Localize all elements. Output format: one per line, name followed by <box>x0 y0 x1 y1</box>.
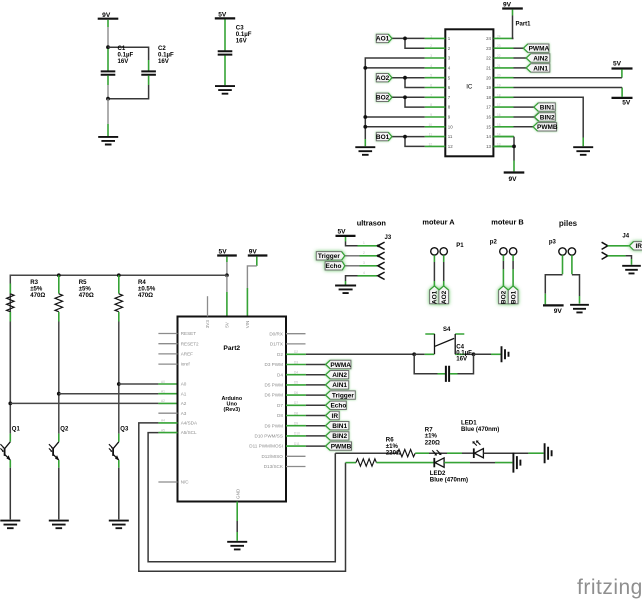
svg-text:11: 11 <box>448 134 453 139</box>
svg-text:S4: S4 <box>443 327 451 333</box>
net flag AIN2 (Arduino D4) <box>326 371 349 380</box>
svg-text:±1%: ±1% <box>425 433 438 440</box>
svg-text:BO1: BO1 <box>510 290 517 304</box>
svg-text:19: 19 <box>497 84 501 88</box>
svg-text:3V3: 3V3 <box>205 320 210 329</box>
svg-text:D6 PWM: D6 PWM <box>265 393 284 398</box>
svg-text:15: 15 <box>497 123 501 127</box>
ground (Q3) <box>109 521 129 529</box>
net flag BO2 <box>376 93 392 102</box>
svg-text:AREF: AREF <box>181 352 193 357</box>
wire p3 pin1 to 9V <box>545 255 562 304</box>
resistor R3 <box>7 279 46 322</box>
svg-text:p3: p3 <box>549 240 557 246</box>
svg-text:BO1: BO1 <box>376 134 390 141</box>
p3 pin circle 2 <box>568 248 575 255</box>
svg-text:Trigger: Trigger <box>318 253 341 260</box>
svg-text:IR: IR <box>635 243 642 250</box>
svg-text:9V: 9V <box>249 248 258 255</box>
svg-text:D0/RX: D0/RX <box>269 331 283 336</box>
power 9V Part1 (IC pin 24) <box>502 2 523 16</box>
node AO2 <box>403 76 407 80</box>
wire resistor top rail <box>10 275 227 403</box>
svg-text:A5/SCL: A5/SCL <box>181 430 197 435</box>
node junction C1 top <box>106 45 110 49</box>
op-amp-driver IC box <box>445 29 493 156</box>
svg-text:19: 19 <box>486 85 491 90</box>
wire D11 to PWMB <box>306 445 326 447</box>
wire C4 bypass left <box>414 354 437 374</box>
wire D10 to BIN2 <box>306 435 326 437</box>
node pin13-14 <box>512 145 516 149</box>
svg-text:BIN1: BIN1 <box>540 105 555 112</box>
wire upper LED rail left <box>335 452 397 454</box>
svg-text:AIN1: AIN1 <box>332 382 347 389</box>
svg-text:10: 10 <box>448 124 453 129</box>
svg-text:J3: J3 <box>385 235 392 241</box>
svg-text:J4: J4 <box>622 234 629 240</box>
wire D4 to AIN2 <box>306 374 326 376</box>
net flag IR (J4) <box>629 242 642 251</box>
svg-text:4: 4 <box>430 64 432 68</box>
svg-text:BIN1: BIN1 <box>332 423 347 430</box>
wire BO1 to pins 11,12 <box>392 137 425 147</box>
Arduino right pin leads D2-D11 <box>286 354 306 446</box>
wire node to S4 left terminal <box>414 353 425 355</box>
svg-text:Trigger: Trigger <box>332 392 355 399</box>
svg-text:470Ω: 470Ω <box>138 292 153 299</box>
net flag PWMA (Arduino D3) <box>326 360 352 369</box>
svg-text:470Ω: 470Ω <box>30 292 45 299</box>
resistor R7 (lower rail) <box>356 459 376 466</box>
ground (C3) <box>215 86 235 94</box>
svg-text:2: 2 <box>430 44 432 48</box>
wire D7 to Echo <box>306 404 326 406</box>
svg-text:D4: D4 <box>294 371 298 375</box>
power 9V (above Arduino) <box>248 248 268 266</box>
svg-text:AO2: AO2 <box>441 290 448 304</box>
svg-text:22: 22 <box>486 56 491 61</box>
J3 pin 3 <box>360 262 385 269</box>
net flag Trigger (J3) <box>316 252 345 261</box>
tiny pin numbers (Arduino leads) <box>161 350 300 446</box>
svg-text:A2: A2 <box>181 401 187 406</box>
node AO1 <box>403 37 407 41</box>
svg-text:ultrason: ultrason <box>357 218 387 227</box>
ground (Arduino GND) <box>227 542 247 550</box>
svg-text:6: 6 <box>430 84 432 88</box>
wire junction to ground <box>107 99 109 136</box>
svg-text:AO1: AO1 <box>432 290 439 304</box>
p3 pin circle 1 <box>559 248 566 255</box>
wire 9V to C1 junction <box>107 27 109 46</box>
ground (lower rail) <box>513 453 520 473</box>
svg-text:4: 4 <box>363 271 365 275</box>
svg-text:18: 18 <box>497 93 501 97</box>
svg-text:D13/SCK: D13/SCK <box>264 464 284 469</box>
wire pin18 to ground <box>514 97 584 146</box>
wire pin20 to 5V <box>514 77 622 79</box>
wire AO2 to pins 5,6 <box>392 78 425 88</box>
wire J4 pin2 to ground <box>626 256 632 265</box>
svg-text:D8: D8 <box>277 413 283 418</box>
capacitor C1 <box>101 45 134 85</box>
wire 9V to Arduino VIN pin <box>247 266 256 316</box>
svg-text:24: 24 <box>497 34 501 38</box>
Arduino A4 A5 pin leads <box>158 423 177 433</box>
svg-text:3: 3 <box>363 261 365 265</box>
wire A5/SCL loop to upper LED rail <box>148 433 335 562</box>
net flag AO2 (moteur A) <box>439 286 449 304</box>
power 5V (IC pin 20) <box>612 61 633 78</box>
svg-text:(Rev3): (Rev3) <box>224 407 241 413</box>
net flag BIN2 (IC pin 16) <box>534 113 555 122</box>
wire D2 to switch S4 <box>306 353 414 355</box>
net flag BO2 (moteur B) <box>499 286 509 304</box>
svg-text:220Ω: 220Ω <box>425 440 440 447</box>
wire ground bus pins 3,4,9,10 <box>365 58 424 146</box>
wire AO1 to pins 1,2 <box>392 38 425 48</box>
net flag PWMB (IC pin 15) <box>533 123 558 132</box>
svg-text:7: 7 <box>430 93 432 97</box>
svg-text:2: 2 <box>363 251 365 255</box>
node S4 right <box>472 352 476 356</box>
IC right pin leads 24-13 <box>493 38 513 146</box>
capacitor C4 <box>438 344 473 382</box>
wire D5 to AIN1 <box>306 384 326 386</box>
wire P1 pin1 to AO1 flag <box>433 255 435 286</box>
svg-text:D8: D8 <box>294 411 298 415</box>
net flag PWMB (Arduino D11) <box>326 442 352 451</box>
net flag BIN1 (IC pin 17) <box>534 103 555 112</box>
wire A1 from R5 <box>59 393 178 395</box>
resistor R6 (upper rail) <box>386 437 415 457</box>
svg-text:21: 21 <box>486 66 491 71</box>
power 9V (top left) <box>98 12 119 27</box>
svg-text:PWMA: PWMA <box>330 362 351 369</box>
svg-text:A0: A0 <box>181 382 187 387</box>
LED1 <box>472 440 483 458</box>
Arduino left stubs RESET RESET2 AREF ioref A3 N/C <box>158 334 177 483</box>
net flag AIN2 (IC pin 22) <box>526 54 550 63</box>
wire p2 pin2 to BO1 flag <box>512 255 514 286</box>
svg-text:5V: 5V <box>622 100 631 107</box>
svg-text:D10: D10 <box>294 432 300 436</box>
net flag Trigger (Arduino D6) <box>326 391 356 400</box>
capacitor C2 <box>141 45 174 85</box>
power 9V (piles) <box>543 305 564 315</box>
node A2 tap <box>8 402 12 406</box>
IC tiny outer pin numbers left <box>428 34 432 146</box>
wire pin22 to AIN2 <box>514 57 527 59</box>
Arduino right pin labels <box>249 331 284 469</box>
svg-text:12: 12 <box>428 142 432 146</box>
wire p3 pin2 to ground <box>572 255 580 303</box>
node BO2 <box>403 95 407 99</box>
resistor R7 label <box>425 426 440 446</box>
Arduino left pin labels <box>181 331 199 485</box>
net flag Echo (J3) <box>325 262 345 271</box>
wire R4 column down <box>118 322 120 434</box>
node A0 tap <box>117 382 121 386</box>
net flag AIN1 (Arduino D5) <box>326 381 349 390</box>
net flag BO1 (moteur B) <box>508 286 518 304</box>
svg-text:AIN2: AIN2 <box>533 55 548 62</box>
ground (ultrason) <box>335 286 356 294</box>
svg-text:A3: A3 <box>181 411 187 416</box>
net flag BIN1 (Arduino D9) <box>326 422 349 431</box>
svg-text:11: 11 <box>429 133 433 137</box>
power 5V (above Arduino) <box>217 248 237 262</box>
p2 pin circle 1 <box>500 248 507 255</box>
svg-text:A1: A1 <box>161 390 165 394</box>
node A1 tap <box>57 392 61 396</box>
wire pin23 to PWMA <box>514 47 524 49</box>
LED1 label <box>461 419 499 433</box>
wire P1 pin2 to AO2 flag <box>443 255 445 286</box>
switch S4 <box>425 327 465 354</box>
ground (upper rail) <box>545 443 552 463</box>
svg-text:Part1: Part1 <box>516 22 532 28</box>
net flag AO1 (moteur A) <box>430 286 440 304</box>
wire R3 column down <box>9 322 11 434</box>
svg-text:BIN2: BIN2 <box>540 114 555 121</box>
svg-text:5: 5 <box>430 74 432 78</box>
svg-text:1: 1 <box>363 241 365 245</box>
svg-text:8: 8 <box>430 103 432 107</box>
wire pin17 to BIN1 <box>514 106 534 108</box>
LED2 <box>432 450 444 467</box>
wire C4 bypass right <box>458 354 474 374</box>
net flag AO1 <box>376 34 392 43</box>
wire 5V to junction <box>226 262 228 274</box>
resistor R5 <box>55 275 94 321</box>
wire R7 to LED2 <box>376 462 434 464</box>
svg-text:22: 22 <box>497 54 501 58</box>
Arduino 3V3 stub <box>207 296 209 316</box>
capacitor C3 <box>218 20 252 86</box>
net flag BO1 <box>376 132 392 141</box>
node bus pin9 <box>363 115 367 119</box>
LED2 label <box>430 470 468 484</box>
wire LED2 to ground <box>444 462 512 464</box>
svg-text:Q2: Q2 <box>60 426 69 432</box>
svg-text:moteur A: moteur A <box>422 218 455 227</box>
svg-text:17: 17 <box>497 103 501 107</box>
wire junction to Arduino 5V pin <box>226 275 228 316</box>
wire 9V to pin 24 <box>513 16 514 39</box>
wire pin14 down <box>493 136 514 138</box>
svg-text:23: 23 <box>497 44 501 48</box>
svg-text:3: 3 <box>430 54 432 58</box>
svg-text:Echo: Echo <box>330 403 346 410</box>
p2 pin circle 2 <box>509 248 516 255</box>
wire Q2 to ground <box>58 468 60 520</box>
wire R5 column down <box>58 322 60 434</box>
svg-text:A0: A0 <box>161 380 165 384</box>
IC pin numbers right 24-13 <box>486 36 491 149</box>
svg-text:17: 17 <box>486 105 491 110</box>
wire pin13 to 9V bottom <box>493 146 514 171</box>
J4 pin 1 <box>602 242 629 249</box>
svg-text:AIN1: AIN1 <box>533 65 548 72</box>
svg-text:Blue (470nm): Blue (470nm) <box>461 426 499 433</box>
net flag BIN2 (Arduino D10) <box>326 432 349 441</box>
svg-text:14: 14 <box>486 134 491 139</box>
wire Echo to J3 pin3 <box>345 265 360 267</box>
svg-text:A4: A4 <box>161 419 165 423</box>
wire pin15 to PWMB <box>514 126 534 128</box>
svg-text:A2: A2 <box>161 399 165 403</box>
svg-text:12: 12 <box>448 144 453 149</box>
ground (piles) <box>570 305 589 313</box>
wire A0 from R4 <box>119 383 178 385</box>
wire C1 bottom to junction <box>107 85 109 98</box>
net flag Echo (Arduino D7) <box>326 401 347 410</box>
svg-text:GND: GND <box>235 488 240 499</box>
wire pin16 to BIN2 <box>514 116 534 118</box>
transistor Q3 <box>109 426 129 467</box>
wire S4 right terminal to node <box>465 353 474 355</box>
svg-text:Part2: Part2 <box>223 345 240 352</box>
svg-text:16: 16 <box>497 113 501 117</box>
node junction C1 bottom <box>106 97 110 101</box>
ground (C1 C2) <box>98 137 118 145</box>
wire D3 to PWMA <box>306 364 326 366</box>
svg-text:D9: D9 <box>294 422 298 426</box>
svg-text:1: 1 <box>430 34 432 38</box>
svg-text:P1: P1 <box>456 243 464 249</box>
microcontroller Part2 Arduino Uno box <box>178 317 287 502</box>
wire Trigger to J3 pin2 <box>345 255 360 257</box>
wire D8 to IR <box>306 415 326 417</box>
svg-text:AIN2: AIN2 <box>332 372 347 379</box>
wire lower LED rail left <box>346 462 357 464</box>
svg-text:5V: 5V <box>613 61 622 68</box>
svg-text:20: 20 <box>486 75 491 80</box>
net flag IR (Arduino D8) <box>326 411 340 420</box>
net flag AO2 <box>376 74 392 83</box>
wire pin19 to 5V lower <box>514 87 623 89</box>
svg-text:16V: 16V <box>158 58 170 65</box>
wire pin21 to AIN1 <box>514 67 527 69</box>
svg-text:16V: 16V <box>118 58 130 65</box>
svg-text:Q3: Q3 <box>120 426 129 432</box>
svg-text:BO2: BO2 <box>376 95 390 102</box>
wire junction to C2 top <box>108 47 149 60</box>
svg-text:9: 9 <box>430 113 432 117</box>
svg-text:16V: 16V <box>456 356 468 363</box>
power 5V lower (IC pin 19) <box>612 88 633 107</box>
green flag tips overlay <box>326 34 634 450</box>
node R5 top <box>57 273 61 277</box>
ground (IC left bus) <box>355 147 375 155</box>
svg-text:24: 24 <box>486 36 491 41</box>
svg-text:D7: D7 <box>277 403 283 408</box>
IC left pin leads 1-12 <box>425 38 446 146</box>
svg-text:23: 23 <box>486 46 491 51</box>
svg-text:D3: D3 <box>294 360 298 364</box>
svg-text:10: 10 <box>428 123 432 127</box>
power 9V (IC bottom) <box>504 173 525 183</box>
svg-text:5V: 5V <box>225 321 230 328</box>
ground (IC right) <box>573 147 593 155</box>
net flag AIN1 (IC pin 21) <box>526 64 550 73</box>
IC tiny outer pin numbers right <box>497 34 501 146</box>
svg-text:5V: 5V <box>337 229 346 236</box>
svg-text:D1/TX: D1/TX <box>270 342 283 347</box>
svg-text:13: 13 <box>486 144 491 149</box>
wire 5V to J3 pin1 <box>346 242 358 246</box>
wire Q1 to ground <box>9 468 11 520</box>
svg-text:PWMA: PWMA <box>529 46 550 53</box>
wire A4/SDA loop to lower LED rail <box>139 423 346 571</box>
ground (Q2) <box>49 521 69 529</box>
svg-text:D6: D6 <box>294 391 298 395</box>
svg-text:D10 PWM/SS: D10 PWM/SS <box>255 434 283 439</box>
svg-text:RESET2: RESET2 <box>181 341 199 346</box>
J3 pin 4 <box>358 272 385 279</box>
svg-text:5V: 5V <box>219 248 228 255</box>
svg-text:D5 PWM: D5 PWM <box>265 383 284 388</box>
ground (J4) <box>622 266 641 274</box>
IC pin numbers left 1-12 <box>448 36 453 149</box>
J4 pin 2 <box>602 252 626 259</box>
svg-text:moteur B: moteur B <box>491 218 523 227</box>
svg-text:A5: A5 <box>161 428 165 432</box>
svg-text:A1: A1 <box>181 391 187 396</box>
transistor Q1 <box>0 426 20 467</box>
Arduino right stubs D0 D1 D12 D13 <box>286 334 306 467</box>
svg-text:Q1: Q1 <box>12 426 21 432</box>
wire S4 node to ground <box>474 353 502 355</box>
svg-text:AO2: AO2 <box>376 75 390 82</box>
svg-text:p2: p2 <box>490 240 498 246</box>
J3 pin 2 <box>360 252 385 259</box>
svg-text:IR: IR <box>332 413 339 420</box>
svg-text:18: 18 <box>486 95 491 100</box>
svg-text:RESET: RESET <box>181 331 197 336</box>
svg-text:D11 PWM/MOSI: D11 PWM/MOSI <box>249 444 283 449</box>
svg-text:D2: D2 <box>277 352 283 357</box>
svg-text:PWMB: PWMB <box>331 443 352 450</box>
wire D6 to Trigger <box>306 394 326 396</box>
node S4 left <box>412 352 416 356</box>
node bus pin4 <box>363 66 367 70</box>
svg-text:AO1: AO1 <box>376 36 390 43</box>
node 5V junction <box>225 273 229 277</box>
svg-text:D5: D5 <box>294 381 298 385</box>
resistor R4 <box>115 275 156 321</box>
svg-text:Echo: Echo <box>326 263 342 270</box>
svg-text:D9 PWM: D9 PWM <box>265 423 284 428</box>
svg-text:470Ω: 470Ω <box>79 292 94 299</box>
svg-text:D3 PWM: D3 PWM <box>265 362 284 367</box>
svg-text:VIN: VIN <box>245 321 250 329</box>
wire BO2 to pins 7,8 <box>392 97 425 107</box>
svg-text:BO2: BO2 <box>501 290 508 304</box>
wire C2 bottom to junction <box>108 85 149 99</box>
svg-text:20: 20 <box>497 74 501 78</box>
svg-text:16: 16 <box>486 115 491 120</box>
Arduino top pin labels <box>205 320 250 329</box>
P1 pin circle 2 <box>440 248 447 255</box>
ground (Q1) <box>0 521 20 529</box>
wire Arduino GND to ground <box>236 502 238 541</box>
tiny pin numbers (J3 leads) <box>363 241 365 275</box>
wire A2 from R3 <box>10 402 177 404</box>
wire J3 pin4 to ground <box>346 276 358 285</box>
